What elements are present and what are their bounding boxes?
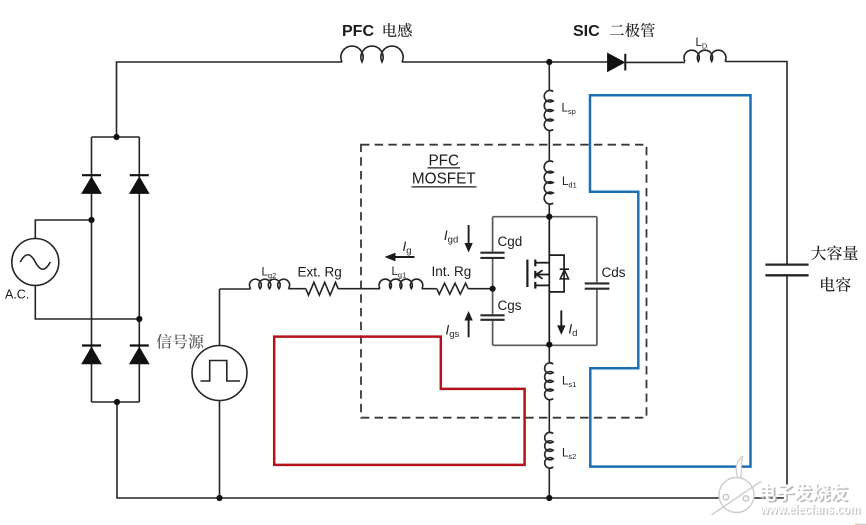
svg-text:Cds: Cds	[602, 265, 626, 280]
svg-text:Ext. Rg: Ext. Rg	[298, 265, 342, 280]
svg-text:MOSFET: MOSFET	[412, 171, 476, 188]
svg-text:Int. Rg: Int. Rg	[432, 264, 472, 279]
svg-text:A.C.: A.C.	[5, 288, 29, 302]
svg-text:SIC: SIC	[573, 23, 600, 40]
svg-text:Cgd: Cgd	[498, 234, 523, 249]
svg-text:PFC: PFC	[428, 152, 459, 169]
svg-text:PFC: PFC	[342, 23, 374, 40]
svg-text:www.elecfans.com: www.elecfans.com	[759, 502, 860, 517]
svg-text:Cgs: Cgs	[498, 298, 522, 313]
